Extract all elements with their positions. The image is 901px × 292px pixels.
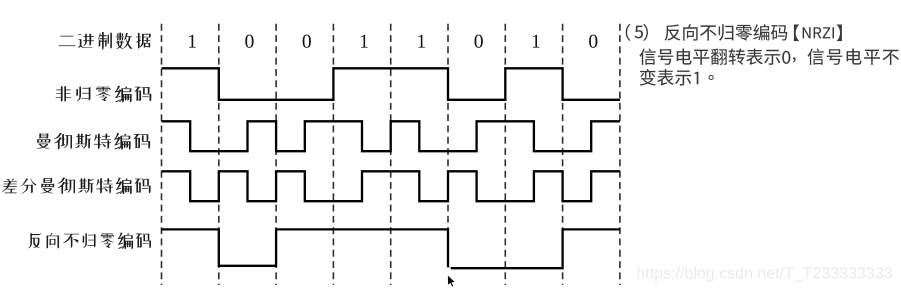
NRZI waveform — [162, 229, 620, 268]
right text line 1: （5）反向不归零编码【NRZI】 — [626, 24, 842, 41]
label 曼彻斯特编码 — [36, 133, 150, 150]
right text line 3: 变表示1。 — [640, 69, 714, 86]
label 反向不归零编码 — [28, 232, 151, 249]
label 差分曼彻斯特编码 — [2, 178, 151, 195]
Manchester waveform — [162, 121, 620, 151]
binary digit row: 1 0 0 1 1 0 1 0 — [189, 35, 597, 48]
right text line 2: 信号电平翻转表示0，信号电平不 — [639, 49, 899, 65]
Differential Manchester waveform — [162, 171, 620, 201]
label 非归零编码 — [56, 86, 152, 103]
label 二进制数据 — [59, 32, 151, 50]
mouse cursor — [446, 267, 456, 287]
watermark text blog.csdn.net/T_T233333333 — [638, 267, 892, 282]
bit-boundary dashed grid lines — [162, 24, 620, 285]
NRZ waveform — [162, 68, 620, 100]
